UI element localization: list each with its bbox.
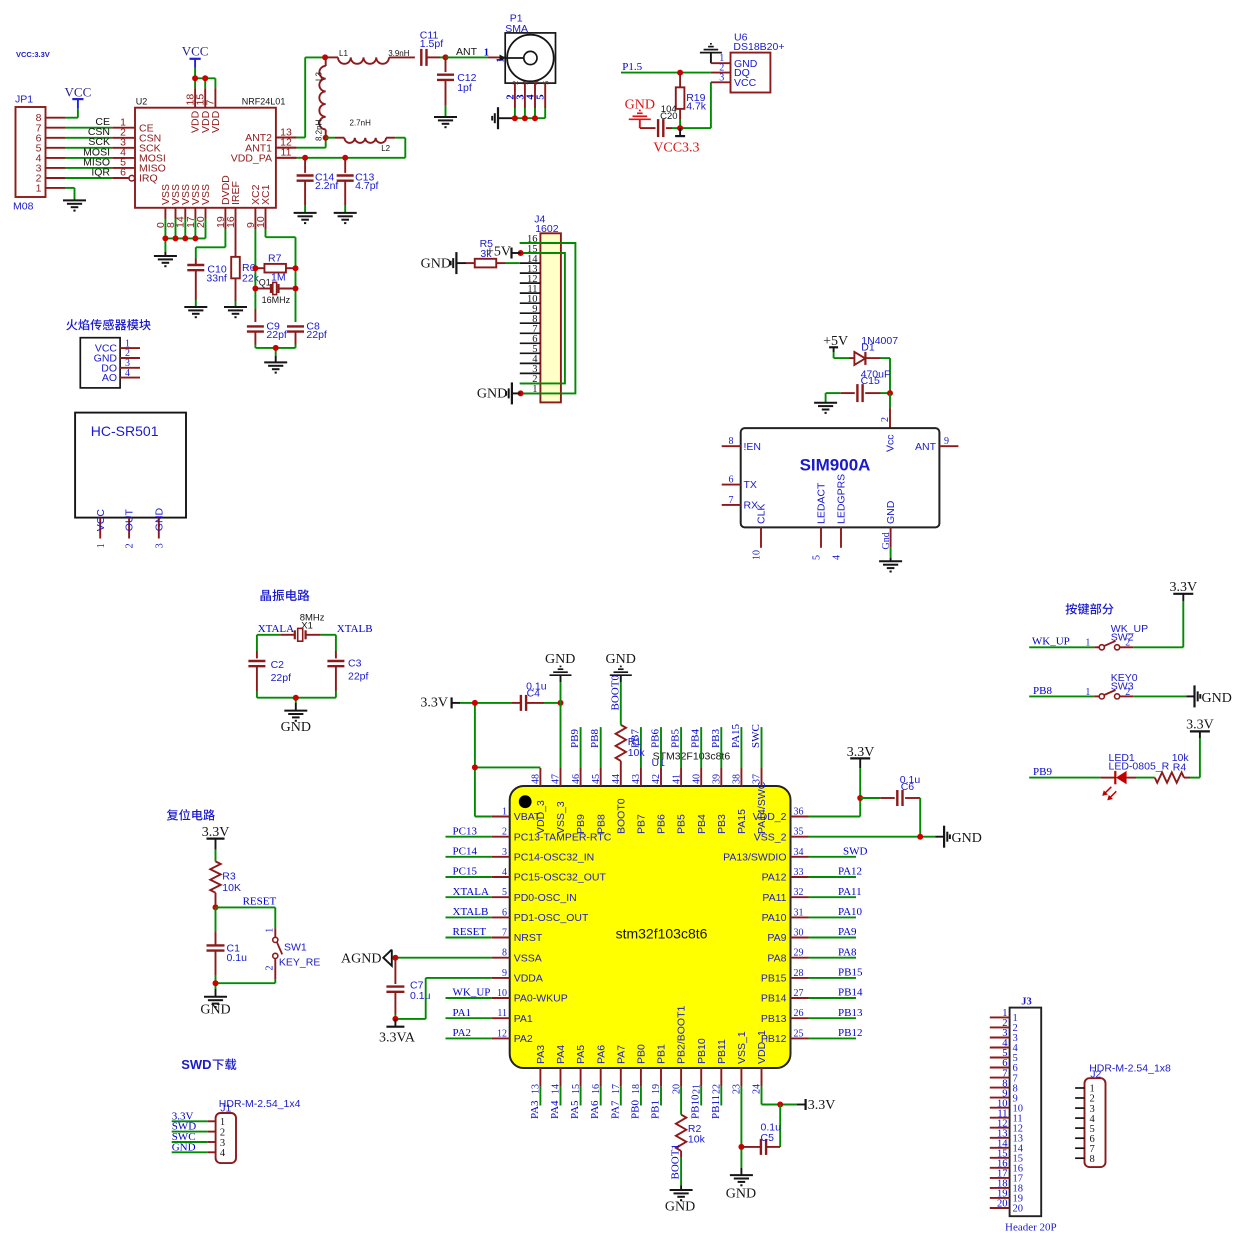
svg-text:C2: C2 bbox=[271, 659, 285, 671]
svg-text:GND: GND bbox=[281, 720, 311, 735]
capacitor C8 22pf bbox=[287, 320, 327, 348]
svg-text:PA5: PA5 bbox=[575, 1045, 587, 1064]
svg-text:PB11: PB11 bbox=[716, 1039, 728, 1064]
svg-text:0.1u: 0.1u bbox=[227, 952, 248, 964]
connector J2 HDR-M-2.54_1x8 bbox=[1075, 1063, 1171, 1168]
svg-text:PB9: PB9 bbox=[575, 814, 587, 834]
svg-text:stm32f103c8t6: stm32f103c8t6 bbox=[616, 926, 708, 942]
svg-text:PB9: PB9 bbox=[569, 729, 581, 748]
svg-text:DS18B20+: DS18B20+ bbox=[733, 41, 784, 53]
svg-text:PC14: PC14 bbox=[453, 846, 478, 858]
ground (crystal) bbox=[264, 362, 287, 372]
power GND (J4 pin1) bbox=[477, 382, 521, 404]
svg-text:M08: M08 bbox=[13, 201, 34, 213]
wire JP1 pin1 to ground bbox=[46, 188, 75, 201]
svg-text:BOOT0: BOOT0 bbox=[609, 675, 621, 711]
wire PA3 net (U1 bottom) bbox=[529, 1086, 541, 1119]
wire PC13 net (U1 left) bbox=[446, 825, 492, 837]
svg-text:VDD_PA: VDD_PA bbox=[231, 153, 272, 165]
svg-text:PB6: PB6 bbox=[656, 814, 668, 834]
svg-text:LED-0805_R: LED-0805_R bbox=[1109, 761, 1170, 773]
svg-text:OUT: OUT bbox=[124, 508, 136, 531]
ground (VSS) bbox=[154, 252, 177, 266]
resistor R7 1M bbox=[255, 252, 295, 283]
svg-text:47: 47 bbox=[551, 774, 562, 784]
svg-text:22pf: 22pf bbox=[266, 329, 287, 341]
crystal Q1 16MHz bbox=[255, 278, 295, 305]
inductor L1 3.9nH bbox=[325, 49, 415, 64]
ground (C12) bbox=[434, 117, 457, 127]
svg-text:4: 4 bbox=[530, 80, 540, 85]
svg-text:ANT: ANT bbox=[915, 441, 937, 453]
svg-text:PB15: PB15 bbox=[838, 967, 863, 979]
junction bbox=[677, 125, 683, 131]
svg-text:25: 25 bbox=[794, 1028, 804, 1039]
svg-text:22pf: 22pf bbox=[271, 672, 292, 684]
svg-text:PB3: PB3 bbox=[716, 814, 728, 834]
svg-text:NRST: NRST bbox=[514, 932, 543, 944]
ground (BOOT0) bbox=[606, 652, 636, 725]
ground (C4) bbox=[545, 652, 575, 675]
capacitor C11 1.5pf bbox=[420, 29, 446, 66]
svg-text:GND: GND bbox=[477, 387, 507, 402]
svg-text:PA15: PA15 bbox=[736, 809, 748, 834]
inductor L2 2.7nH bbox=[326, 119, 406, 153]
svg-text:PB11: PB11 bbox=[710, 1095, 722, 1119]
wire crystal left bbox=[257, 635, 280, 659]
svg-text:IREF: IREF bbox=[230, 181, 242, 205]
svg-text:L2: L2 bbox=[381, 144, 390, 153]
junction bbox=[472, 700, 478, 771]
ground (VSS_1) bbox=[726, 1175, 756, 1202]
svg-text:43: 43 bbox=[631, 774, 642, 784]
svg-text:22pf: 22pf bbox=[306, 329, 327, 341]
svg-text:3: 3 bbox=[520, 81, 530, 85]
wire VDD_PA net bbox=[276, 138, 405, 158]
svg-text:R3: R3 bbox=[222, 870, 236, 882]
svg-text:VSSA: VSSA bbox=[514, 952, 542, 964]
ground (C13) bbox=[334, 213, 357, 223]
wire MISO net bbox=[46, 156, 136, 168]
svg-text:6: 6 bbox=[120, 167, 126, 179]
IC U2 NRF24L01 bbox=[120, 88, 296, 229]
junction bbox=[512, 115, 538, 121]
svg-text:U1: U1 bbox=[652, 757, 666, 769]
label SWD download title bbox=[181, 1057, 236, 1072]
capacitor C1 0.1u bbox=[207, 907, 248, 983]
svg-text:PA4: PA4 bbox=[555, 1045, 567, 1064]
svg-text:8: 8 bbox=[1090, 1154, 1095, 1165]
svg-text:1: 1 bbox=[1085, 687, 1090, 698]
svg-text:PB1: PB1 bbox=[656, 1044, 668, 1064]
svg-text:1: 1 bbox=[96, 543, 107, 548]
net label WK_UP bbox=[1032, 636, 1070, 648]
net label P1.5 bbox=[622, 61, 642, 73]
svg-text:2: 2 bbox=[264, 966, 275, 971]
svg-text:30: 30 bbox=[794, 928, 804, 939]
wire SWD net (U1 right) bbox=[809, 846, 868, 858]
svg-text:4: 4 bbox=[220, 1148, 226, 1159]
wire PB3 net (U1 top) bbox=[710, 727, 722, 768]
junction bbox=[162, 235, 198, 241]
ground (SIM900A) bbox=[879, 561, 902, 571]
svg-text:PA10: PA10 bbox=[838, 906, 863, 918]
wire J4 pin15 to +5V link bbox=[520, 253, 565, 383]
ground (C10) bbox=[184, 307, 207, 317]
junction bbox=[738, 1102, 783, 1150]
resistor R19 4.7k bbox=[676, 73, 707, 129]
wire PB5 net (U1 top) bbox=[670, 727, 682, 768]
svg-text:VCC:3.3V: VCC:3.3V bbox=[16, 50, 50, 59]
junction bbox=[273, 345, 279, 351]
svg-text:3.3V: 3.3V bbox=[420, 695, 448, 710]
wire PA11 net (U1 right) bbox=[809, 886, 862, 898]
power VCC (U2) bbox=[182, 43, 209, 68]
svg-text:10k: 10k bbox=[688, 1134, 706, 1146]
wire SMA shield to ground bbox=[498, 108, 545, 118]
svg-text:GND: GND bbox=[172, 1141, 196, 1153]
svg-text:32: 32 bbox=[794, 887, 804, 898]
wire JP1 pin8 to VCC bbox=[46, 109, 78, 118]
svg-text:PB5: PB5 bbox=[676, 814, 688, 834]
wire PC15 net (U1 left) bbox=[446, 866, 492, 878]
net label BOOT0 bbox=[609, 675, 621, 711]
svg-text:PA1: PA1 bbox=[514, 1013, 533, 1025]
wire D1 to Vcc bbox=[889, 358, 891, 393]
wire reset bottom rail bbox=[216, 983, 276, 997]
svg-text:!EN: !EN bbox=[744, 441, 762, 453]
diode D1 1N4007 bbox=[834, 335, 899, 365]
capacitor C9 22pf bbox=[247, 320, 287, 348]
inductor L3 8.2nH bbox=[315, 57, 326, 141]
svg-text:JP1: JP1 bbox=[15, 94, 33, 106]
svg-text:2: 2 bbox=[220, 1127, 225, 1138]
wire XTALB net (U1 left) bbox=[446, 906, 492, 918]
wire CE net bbox=[46, 116, 136, 128]
svg-text:22pf: 22pf bbox=[348, 671, 369, 683]
junction bbox=[887, 390, 893, 396]
wire PA8 net (U1 right) bbox=[809, 946, 858, 958]
capacitor C3 22pf bbox=[327, 658, 368, 698]
svg-text:PB2/BOOT1: PB2/BOOT1 bbox=[676, 1005, 688, 1064]
svg-text:VSS_1: VSS_1 bbox=[736, 1031, 748, 1064]
svg-text:8: 8 bbox=[729, 436, 734, 447]
wire PA9 net (U1 right) bbox=[809, 926, 858, 938]
power flag VCC:3.3V note bbox=[16, 50, 50, 59]
connector J4 1602 bbox=[520, 213, 561, 402]
svg-text:PB1: PB1 bbox=[650, 1100, 662, 1119]
power 3.3V (reset) bbox=[202, 825, 230, 861]
svg-text:ANT: ANT bbox=[456, 46, 478, 58]
svg-text:GND: GND bbox=[200, 1003, 230, 1018]
svg-text:GND: GND bbox=[665, 1200, 695, 1215]
svg-text:BOOT0: BOOT0 bbox=[615, 798, 627, 834]
svg-text:C5: C5 bbox=[761, 1132, 775, 1144]
junction bbox=[192, 75, 208, 81]
ground (JP1) bbox=[63, 200, 86, 210]
ground (crystal circuit) bbox=[281, 711, 311, 735]
svg-text:Gnd: Gnd bbox=[881, 532, 892, 549]
svg-text:1.5pf: 1.5pf bbox=[420, 38, 443, 50]
svg-text:6: 6 bbox=[729, 475, 734, 486]
wire PB6 net (U1 top) bbox=[650, 727, 662, 768]
capacitor C10 33nf bbox=[187, 264, 227, 308]
wire J4 pin16 to GND link bbox=[520, 243, 576, 393]
junction bbox=[213, 904, 219, 910]
svg-text:GND: GND bbox=[1202, 691, 1232, 706]
svg-text:PC15-OSC32_OUT: PC15-OSC32_OUT bbox=[514, 872, 607, 884]
resistor R5 3k bbox=[456, 238, 519, 268]
svg-text:XTALA: XTALA bbox=[258, 623, 294, 635]
svg-text:27: 27 bbox=[794, 988, 804, 999]
net label RESET bbox=[243, 895, 277, 907]
wire PB0 net (U1 bottom) bbox=[629, 1086, 641, 1119]
svg-text:VDD_3: VDD_3 bbox=[535, 800, 547, 834]
wire crystal ground rail bbox=[257, 698, 336, 711]
svg-text:IRQ: IRQ bbox=[139, 173, 158, 185]
capacitor C15 470uF bbox=[826, 369, 891, 402]
power +5V (J4) bbox=[486, 244, 521, 259]
power 3.3VA bbox=[379, 1019, 416, 1046]
wire PB9 net (U1 top) bbox=[569, 727, 581, 768]
svg-text:5: 5 bbox=[536, 94, 547, 99]
power AGND bbox=[341, 950, 397, 967]
junction bbox=[443, 54, 449, 60]
svg-text:5: 5 bbox=[502, 887, 507, 898]
power 3.3V (VDD_2) bbox=[847, 745, 875, 798]
junction bbox=[252, 265, 298, 291]
svg-text:SWC: SWC bbox=[750, 724, 762, 748]
svg-text:J3: J3 bbox=[1021, 996, 1032, 1007]
svg-text:29: 29 bbox=[794, 948, 804, 959]
svg-text:VDD: VDD bbox=[210, 110, 222, 133]
junction bbox=[302, 155, 348, 161]
svg-text:PA13/SWDIO: PA13/SWDIO bbox=[723, 851, 786, 863]
svg-text:22k: 22k bbox=[242, 272, 260, 284]
svg-text:SWD: SWD bbox=[181, 1057, 211, 1072]
svg-text:1: 1 bbox=[496, 58, 507, 63]
svg-text:16MHz: 16MHz bbox=[262, 295, 291, 305]
svg-text:1pf: 1pf bbox=[457, 82, 472, 94]
svg-text:VCC: VCC bbox=[182, 43, 209, 58]
junction bbox=[213, 980, 219, 986]
wire XC2 net bbox=[254, 229, 256, 322]
svg-text:PD0-OSC_IN: PD0-OSC_IN bbox=[514, 892, 577, 904]
svg-text:8: 8 bbox=[502, 948, 507, 959]
svg-text:48: 48 bbox=[531, 774, 542, 784]
ground (BOOT1) bbox=[665, 1190, 695, 1215]
svg-text:8.2nH: 8.2nH bbox=[315, 119, 324, 141]
svg-text:VDDA: VDDA bbox=[514, 973, 543, 985]
svg-text:PC14-OSC32_IN: PC14-OSC32_IN bbox=[514, 851, 595, 863]
svg-text:5: 5 bbox=[541, 81, 551, 85]
svg-text:PB7: PB7 bbox=[636, 814, 648, 834]
svg-text:20: 20 bbox=[997, 1199, 1008, 1210]
IC U6 DS18B20+ bbox=[719, 32, 784, 93]
junction bbox=[392, 955, 398, 961]
svg-text:PB4: PB4 bbox=[696, 814, 708, 834]
svg-text:PB6: PB6 bbox=[650, 729, 662, 748]
capacitor C5 0.1u bbox=[741, 1105, 781, 1155]
net label XTALA bbox=[258, 623, 294, 635]
wire VDDA net bbox=[395, 978, 491, 1019]
svg-text:12: 12 bbox=[497, 1028, 507, 1039]
power 3.3V (R4) bbox=[1186, 718, 1214, 778]
wire WK_UP net bbox=[1029, 646, 1094, 648]
svg-text:SW1: SW1 bbox=[284, 941, 307, 953]
svg-text:Q1: Q1 bbox=[259, 278, 271, 288]
wire ANT net bbox=[446, 46, 506, 59]
wire SWC net (J1) bbox=[172, 1131, 216, 1143]
power VCC (JP1) bbox=[65, 85, 92, 109]
ground (SW3) bbox=[1186, 685, 1232, 707]
svg-text:XTALB: XTALB bbox=[453, 906, 489, 918]
wire PA4 net (U1 bottom) bbox=[549, 1086, 561, 1119]
svg-text:PD1-OSC_OUT: PD1-OSC_OUT bbox=[514, 912, 589, 924]
svg-text:33: 33 bbox=[794, 867, 804, 878]
wire PC14 net (U1 left) bbox=[446, 846, 492, 858]
svg-text:Vcc: Vcc bbox=[885, 434, 897, 452]
svg-text:3.3V: 3.3V bbox=[1186, 718, 1214, 733]
svg-text:PA9: PA9 bbox=[767, 932, 786, 944]
svg-text:CLK: CLK bbox=[756, 504, 768, 524]
svg-text:1: 1 bbox=[1085, 638, 1090, 649]
svg-text:PA10: PA10 bbox=[762, 912, 787, 924]
svg-text:C3: C3 bbox=[348, 658, 362, 670]
svg-text:D1: D1 bbox=[861, 341, 875, 353]
svg-text:1: 1 bbox=[264, 928, 275, 933]
svg-text:GND: GND bbox=[606, 652, 636, 667]
svg-text:C6: C6 bbox=[901, 781, 915, 793]
svg-text:3.9nH: 3.9nH bbox=[388, 49, 410, 58]
ground (reset) bbox=[200, 997, 230, 1018]
capacitor C4 0.1u bbox=[512, 680, 561, 711]
svg-text:PA11: PA11 bbox=[838, 886, 862, 898]
svg-text:AGND: AGND bbox=[341, 951, 381, 966]
ground (R6) bbox=[224, 307, 247, 317]
wire PB12 net (U1 right) bbox=[809, 1027, 863, 1039]
power GND (R5) bbox=[421, 252, 457, 274]
wire PA15 net (U1 top) bbox=[730, 723, 742, 768]
svg-text:42: 42 bbox=[651, 774, 662, 784]
wire VBAT rail bbox=[475, 703, 541, 817]
svg-text:2: 2 bbox=[880, 417, 891, 422]
wire PB10 net (U1 bottom) bbox=[690, 1086, 702, 1119]
svg-text:0.1u: 0.1u bbox=[410, 990, 431, 1002]
svg-text:PA3: PA3 bbox=[529, 1100, 541, 1119]
svg-text:PC13: PC13 bbox=[453, 825, 478, 837]
svg-text:PB0: PB0 bbox=[629, 1100, 641, 1119]
power GND (red) bbox=[625, 97, 655, 128]
svg-text:RESET: RESET bbox=[453, 926, 487, 938]
wire PA7 net (U1 bottom) bbox=[609, 1086, 621, 1119]
svg-text:PA6: PA6 bbox=[595, 1045, 607, 1064]
switch SW2 WK_UP bbox=[1085, 623, 1183, 650]
svg-text:AO: AO bbox=[102, 372, 117, 384]
svg-text:SWD: SWD bbox=[843, 846, 868, 858]
net label XTALB bbox=[337, 623, 373, 635]
svg-text:VCC: VCC bbox=[734, 77, 757, 89]
svg-text:GND: GND bbox=[726, 1187, 756, 1202]
wire RESET net bbox=[216, 907, 276, 937]
ground (C14) bbox=[294, 213, 317, 223]
module SIM900A bbox=[722, 428, 959, 560]
svg-text:4: 4 bbox=[125, 368, 130, 379]
power 3.3V (VDD_1) bbox=[806, 1098, 836, 1113]
svg-text:PA9: PA9 bbox=[838, 926, 857, 938]
wire VDD rail bbox=[195, 68, 215, 88]
svg-text:VCC3.3: VCC3.3 bbox=[653, 141, 699, 156]
wire ANT2 net bbox=[276, 57, 325, 137]
svg-text:33nf: 33nf bbox=[206, 272, 227, 284]
svg-text:SIM900A: SIM900A bbox=[800, 456, 871, 475]
wire PA12 net (U1 right) bbox=[809, 866, 863, 878]
svg-text:40: 40 bbox=[691, 774, 702, 784]
svg-text:XC1: XC1 bbox=[260, 184, 272, 205]
wire VSS rail to ground bbox=[165, 219, 205, 253]
svg-text:WK_UP: WK_UP bbox=[453, 987, 491, 999]
net label PB9 bbox=[1033, 766, 1052, 778]
svg-text:35: 35 bbox=[794, 827, 804, 838]
svg-text:PA1: PA1 bbox=[453, 1007, 472, 1019]
svg-text:PA14/SWC: PA14/SWC bbox=[756, 781, 768, 834]
svg-text:GND: GND bbox=[885, 500, 897, 524]
wire XTALA net (U1 left) bbox=[446, 886, 492, 898]
svg-text:4.7k: 4.7k bbox=[686, 101, 707, 113]
power VCC3.3 bbox=[653, 128, 699, 156]
label crystal circuit title bbox=[261, 589, 310, 601]
IC U1 stm32f103c8t6 bbox=[492, 750, 809, 1094]
svg-text:44: 44 bbox=[611, 774, 622, 784]
svg-text:2: 2 bbox=[502, 827, 507, 838]
wire crystal right bbox=[321, 635, 336, 659]
svg-text:U2: U2 bbox=[136, 97, 148, 107]
label reset circuit title bbox=[167, 809, 215, 820]
svg-text:16: 16 bbox=[225, 216, 237, 228]
svg-text:2: 2 bbox=[125, 543, 136, 548]
label keys section title bbox=[1066, 603, 1114, 614]
wire MOSI net bbox=[46, 146, 136, 158]
wire SWC net (U1 top) bbox=[750, 724, 762, 768]
ground (VSS_2) bbox=[935, 826, 982, 848]
ground (C15) bbox=[814, 393, 837, 413]
svg-text:XTALB: XTALB bbox=[337, 623, 373, 635]
svg-text:41: 41 bbox=[671, 774, 682, 784]
svg-text:PC15: PC15 bbox=[453, 866, 478, 878]
svg-text:GND: GND bbox=[421, 256, 451, 271]
junction bbox=[917, 834, 923, 840]
svg-text:GND: GND bbox=[952, 831, 982, 846]
svg-text:PB8: PB8 bbox=[1033, 685, 1052, 697]
svg-text:RESET: RESET bbox=[243, 895, 277, 907]
svg-text:VSS: VSS bbox=[200, 184, 212, 205]
power +5V (SIM900A) bbox=[823, 334, 848, 352]
wire CSN net bbox=[46, 126, 136, 138]
resistor R6 22k bbox=[231, 229, 259, 307]
junction bbox=[392, 1016, 398, 1022]
svg-text:PB14: PB14 bbox=[761, 993, 787, 1005]
wire PA6 net (U1 bottom) bbox=[589, 1086, 601, 1119]
ground (U6 pin1) bbox=[700, 44, 731, 63]
resistor R4 10k bbox=[1136, 752, 1200, 783]
svg-text:PB9: PB9 bbox=[1033, 766, 1052, 778]
svg-text:PA0-WKUP: PA0-WKUP bbox=[514, 993, 568, 1005]
svg-text:C20: C20 bbox=[660, 111, 677, 122]
resistor R2 10k (BOOT1) bbox=[676, 1086, 706, 1157]
wire PB4 net (U1 top) bbox=[690, 727, 702, 768]
wire PB11 net (U1 bottom) bbox=[710, 1086, 722, 1119]
wire Vcc pin2 bbox=[880, 393, 891, 428]
